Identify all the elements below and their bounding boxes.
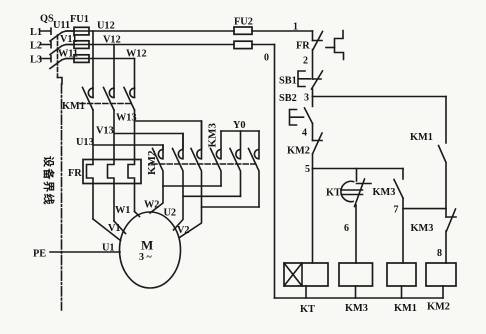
switch QS pole 2 <box>50 45 74 55</box>
wire node 6 to KM3 coil <box>355 205 357 263</box>
wire W1 to motor <box>135 212 140 217</box>
svg-text:KM3: KM3 <box>373 187 396 198</box>
wire U2 <box>174 196 241 230</box>
QS mechanical linkage <box>57 35 59 78</box>
QS handle link <box>58 78 63 85</box>
wire L1 input <box>40 28 51 34</box>
wire KM3 coil bottom <box>355 286 357 298</box>
contactor KM2 contact 3 <box>191 121 202 207</box>
FR heater element 2 <box>108 160 115 222</box>
wire node 4 <box>312 124 314 141</box>
svg-text:V13: V13 <box>96 126 114 137</box>
svg-text:U2: U2 <box>164 208 177 219</box>
svg-text:0: 0 <box>264 53 269 64</box>
svg-text:SB2: SB2 <box>279 93 297 104</box>
svg-text:FR: FR <box>296 41 310 52</box>
wire PE <box>50 251 120 253</box>
fuse FU2-2 <box>234 41 252 48</box>
svg-text:U11: U11 <box>53 20 70 31</box>
wire KM1 phase drops <box>93 31 135 98</box>
svg-text:8: 8 <box>437 248 442 259</box>
wire V13 <box>114 110 183 160</box>
svg-text:L3: L3 <box>30 55 42 66</box>
wire V12 row <box>66 44 275 46</box>
svg-text:W12: W12 <box>126 49 147 60</box>
FR linkage dash <box>326 47 335 49</box>
wire node5 to KT coil <box>312 169 314 264</box>
svg-text:KM2: KM2 <box>146 150 158 175</box>
fuse FU1-3 <box>74 55 89 63</box>
svg-text:3 ~: 3 ~ <box>139 252 153 263</box>
svg-text:Y0: Y0 <box>233 120 246 131</box>
KM2 KM3 mechanical linkage <box>152 163 258 165</box>
svg-text:4: 4 <box>302 128 307 139</box>
svg-text:5: 5 <box>305 164 310 175</box>
contactor KM3 contact 3 <box>249 131 260 207</box>
svg-text:SB1: SB1 <box>279 76 297 87</box>
thermal relay FR box <box>83 160 141 184</box>
switch QS pole 1 <box>50 31 74 41</box>
wire node 5 <box>312 154 314 169</box>
coil KT (time relay) <box>284 263 328 286</box>
svg-text:KM3: KM3 <box>345 303 368 314</box>
wire node5 bus <box>313 168 404 170</box>
svg-text:U13: U13 <box>76 137 94 148</box>
KT delay symbol <box>341 181 363 201</box>
svg-text:KT: KT <box>300 304 315 315</box>
wire V2 <box>180 207 260 238</box>
wire V1 to motor <box>114 221 126 234</box>
contactor KM1 main contact 1 <box>83 88 94 111</box>
wire KM2 coil bottom <box>442 286 444 298</box>
FR trip flag <box>335 31 344 60</box>
svg-text:3: 3 <box>304 93 309 104</box>
coil KM2 <box>426 263 456 286</box>
switch QS pole 3 <box>50 59 74 69</box>
svg-text:QS: QS <box>40 14 54 25</box>
equipment boundary line <box>61 84 63 310</box>
fuse FU1-1 <box>74 27 89 35</box>
svg-text:W13: W13 <box>116 113 137 124</box>
svg-text:W2: W2 <box>144 200 159 211</box>
contactor KM3 contact 2 <box>230 131 241 196</box>
contactor KM1 main contact 3 <box>124 88 135 111</box>
wire 0 rail <box>274 45 276 299</box>
wire KM1 coil bottom <box>401 286 403 298</box>
svg-text:V12: V12 <box>103 35 121 46</box>
svg-text:FU2: FU2 <box>234 17 253 28</box>
contactor KM2 contact 2 <box>173 134 184 197</box>
wire U1 to motor <box>93 219 121 241</box>
wire U13 <box>93 110 163 160</box>
svg-text:KM2: KM2 <box>427 302 450 313</box>
wire node2-3 <box>312 89 314 97</box>
wire Y0 star bus <box>221 130 259 132</box>
wire node 8 to KM2 coil <box>445 231 447 263</box>
wire node7 branch <box>403 208 446 210</box>
svg-text:FU1: FU1 <box>70 14 89 25</box>
svg-text:6: 6 <box>344 223 349 234</box>
svg-text:L2: L2 <box>30 41 42 52</box>
svg-text:KM1: KM1 <box>410 132 433 143</box>
fuse FU2-1 <box>234 27 252 34</box>
wire node 7 to KM1 coil <box>402 198 404 263</box>
wire W13 <box>135 110 202 160</box>
wire W12 row <box>66 58 135 60</box>
svg-text:V2: V2 <box>177 225 190 236</box>
wire node3 branch <box>313 96 447 98</box>
svg-text:KM2: KM2 <box>287 146 310 157</box>
wire L3 input <box>40 56 51 62</box>
wire U12 row <box>66 30 313 32</box>
svg-text:2: 2 <box>303 56 308 67</box>
wire control line 1 <box>312 31 314 41</box>
svg-text:1: 1 <box>293 22 298 33</box>
svg-text:M: M <box>141 238 153 253</box>
KM1 mechanical linkage <box>80 103 131 105</box>
svg-text:KT: KT <box>326 188 341 199</box>
wire L2 input <box>40 42 51 48</box>
fuse FU1-2 <box>74 41 89 49</box>
coil KM3 <box>339 263 373 286</box>
wire node2 <box>312 50 314 80</box>
motor M 3~ <box>120 212 181 288</box>
coil KM1 <box>387 263 416 286</box>
svg-text:L1: L1 <box>30 27 42 38</box>
FR heater element 1 <box>87 160 94 220</box>
svg-text:PE: PE <box>33 249 46 260</box>
svg-text:KM3: KM3 <box>411 223 434 234</box>
FR heater element 3 <box>128 160 135 212</box>
svg-text:KM1: KM1 <box>394 303 417 314</box>
wire W2 <box>150 186 221 213</box>
wire bottom bus <box>275 297 444 299</box>
svg-text:KM3: KM3 <box>207 123 219 148</box>
contactor KM2 contact 1 <box>153 145 164 186</box>
svg-text:7: 7 <box>394 205 399 216</box>
contactor KM1 main contact 2 <box>104 88 115 111</box>
svg-text:设备界线: 设备界线 <box>42 156 56 206</box>
contactor KM3 contact 1 <box>211 131 222 186</box>
svg-text:W1: W1 <box>115 205 130 216</box>
svg-text:FR: FR <box>68 168 82 179</box>
svg-text:U12: U12 <box>97 21 115 32</box>
svg-text:KM1: KM1 <box>62 101 85 112</box>
svg-text:V1: V1 <box>108 223 121 234</box>
wire KT coil bottom <box>305 286 307 298</box>
